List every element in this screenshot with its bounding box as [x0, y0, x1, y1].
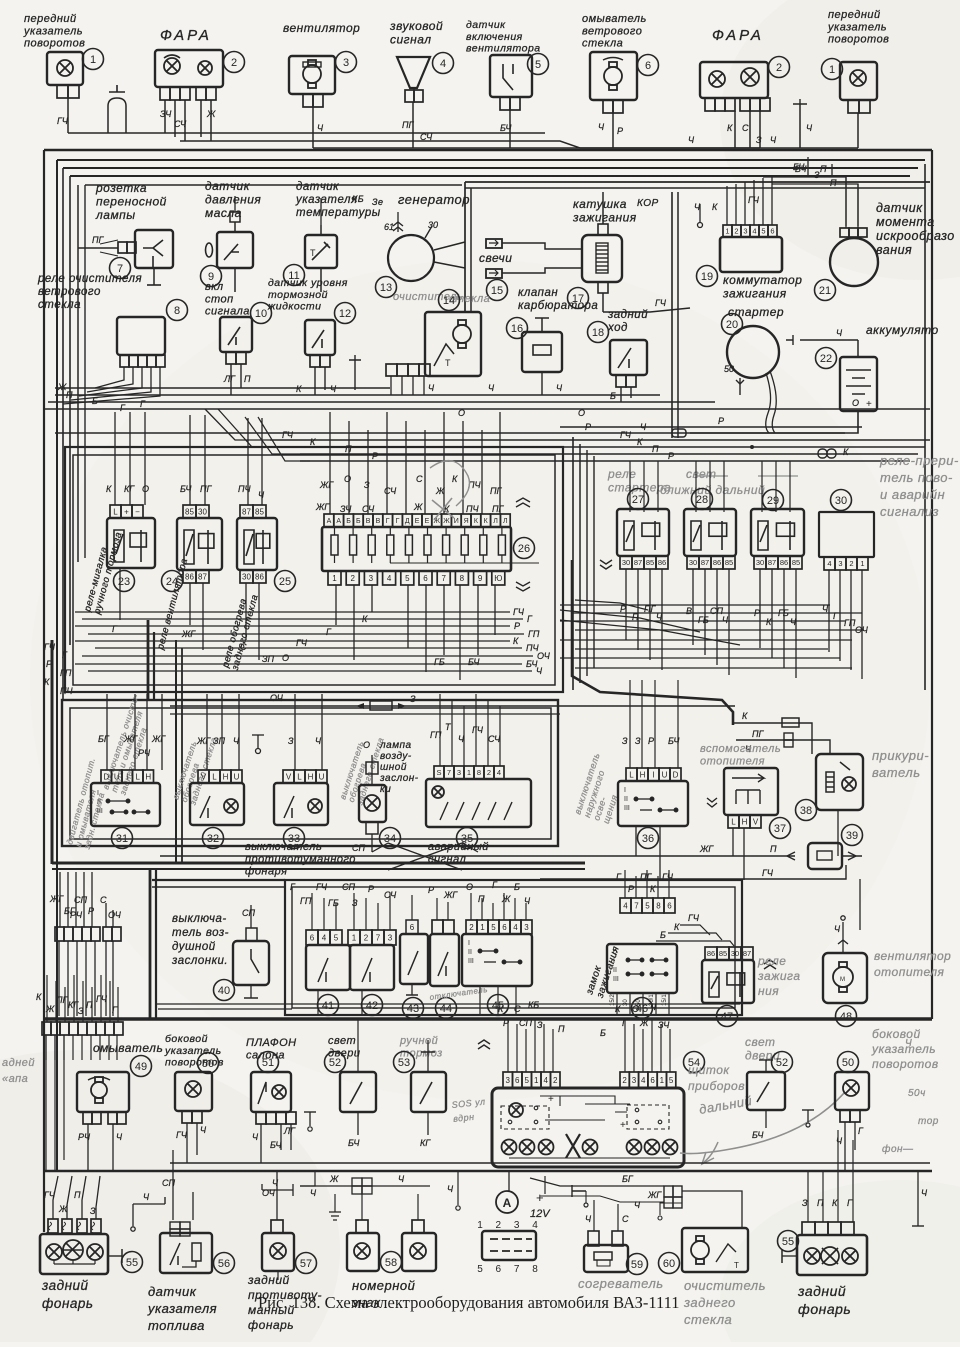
switch box 45 — [462, 934, 532, 986]
svg-text:Ч: Ч — [905, 1038, 912, 1049]
switch box 31 — [91, 783, 160, 826]
frame outer-left vertical — [43, 150, 45, 1232]
ignition lock wires up — [624, 870, 626, 898]
svg-text:КГ: КГ — [420, 1138, 431, 1148]
svg-text:86: 86 — [780, 558, 788, 567]
svg-text:30: 30 — [242, 572, 251, 581]
svg-text:22: 22 — [820, 353, 832, 365]
svg-text:ЖГ: ЖГ — [196, 736, 211, 746]
svg-text:З: З — [90, 1206, 96, 1216]
svg-text:ЖГ: ЖГ — [123, 734, 138, 744]
svg-text:Т: Т — [734, 1261, 739, 1270]
top bus wire 1 — [68, 132, 545, 134]
svg-text:40: 40 — [218, 985, 230, 997]
svg-text:согреватель: согреватель — [578, 1276, 664, 1291]
door switch box 52 right — [747, 1072, 785, 1110]
svg-text:В: В — [376, 518, 381, 525]
switch 43 pin — [406, 920, 418, 934]
svg-text:С: С — [416, 474, 423, 484]
svg-text:L: L — [212, 772, 217, 781]
bottom left connector row — [48, 1219, 58, 1233]
svg-text:14: 14 — [443, 295, 455, 307]
plug wires to coil — [502, 243, 582, 249]
svg-text:ПГ: ПГ — [640, 872, 653, 882]
number plate lamp pins — [356, 1220, 368, 1233]
svg-text:Ж: Ж — [435, 486, 445, 496]
feeder line P — [300, 453, 918, 455]
wires relay 24 down — [189, 583, 191, 625]
svg-text:Ч: Ч — [790, 617, 797, 627]
tail lamp box 55 left — [40, 1234, 108, 1274]
svg-text:56: 56 — [218, 1258, 230, 1270]
tap left of 50R — [807, 1110, 809, 1122]
svg-text:С: С — [514, 1004, 521, 1014]
svg-text:С: С — [622, 1214, 629, 1224]
svg-text:Б: Б — [600, 1028, 606, 1038]
thick line right descent — [572, 560, 733, 725]
svg-text:3: 3 — [343, 57, 349, 69]
switch 31 pins — [101, 770, 154, 783]
circled 5 — [528, 54, 549, 75]
wires into panel right header — [624, 1019, 626, 1072]
svg-text:1: 1 — [534, 1076, 539, 1085]
svg-text:ГЧ: ГЧ — [44, 642, 56, 652]
svg-text:20: 20 — [726, 319, 738, 331]
svg-text:Ч: Ч — [650, 1002, 657, 1012]
frame left vertical 1 — [56, 160, 58, 1170]
svg-text:ПЧ: ПЧ — [466, 504, 480, 514]
svg-text:57: 57 — [300, 1258, 312, 1270]
circled 28 — [692, 489, 713, 510]
bus bundle left y 612-671 — [75, 611, 510, 613]
svg-text:4: 4 — [322, 933, 327, 942]
section B frame outer — [62, 700, 558, 846]
circled 25 — [275, 571, 296, 592]
feeder line GCH — [270, 439, 930, 441]
svg-text:З: З — [802, 1198, 808, 1208]
wires into fuse block — [329, 412, 331, 514]
svg-text:Р: Р — [514, 621, 520, 631]
right section frame verticals — [572, 437, 574, 690]
svg-text:З: З — [288, 736, 294, 746]
inner frame line 5 left vertical — [84, 185, 86, 558]
svg-text:СП: СП — [519, 1018, 532, 1028]
inner frame around generator area — [465, 181, 930, 183]
chevron below 27 area — [600, 560, 612, 569]
svg-text:ЖГ: ЖГ — [699, 844, 714, 854]
svg-text:6: 6 — [645, 60, 651, 72]
svg-text:К: К — [36, 992, 42, 1002]
svg-text:БЧ: БЧ — [668, 736, 680, 746]
svg-text:4: 4 — [752, 227, 756, 236]
svg-text:85: 85 — [185, 507, 194, 516]
circled 4 — [433, 53, 454, 74]
svg-text:ГЧ: ГЧ — [655, 298, 667, 308]
inline connector on bus F — [672, 429, 686, 437]
side indicator wires down — [186, 1123, 188, 1163]
svg-text:свечи: свечи — [479, 251, 512, 265]
switch box 41 — [306, 945, 350, 990]
svg-text:Ч: Ч — [488, 383, 495, 393]
svg-text:СП: СП — [162, 1178, 175, 1188]
svg-text:ПГ: ПГ — [752, 729, 765, 739]
svg-text:4: 4 — [513, 923, 518, 932]
lower-left wires to bottom — [45, 1035, 47, 1060]
svg-text:8: 8 — [460, 574, 465, 583]
svg-text:О: О — [466, 882, 473, 892]
svg-text:5 6 7 8: 5 6 7 8 — [477, 1264, 543, 1275]
spark plug lower — [486, 269, 502, 278]
svg-text:3: 3 — [388, 933, 393, 942]
circled 57 — [296, 1253, 317, 1274]
svg-text:ПГ: ПГ — [492, 504, 505, 514]
bus line B — [55, 394, 660, 396]
svg-text:28: 28 — [696, 494, 708, 506]
svg-text:2: 2 — [350, 574, 355, 583]
svg-text:ЗЧ: ЗЧ — [160, 109, 172, 119]
svg-text:87: 87 — [701, 558, 709, 567]
relay box 24 — [177, 518, 222, 570]
svg-text:Р: Р — [88, 906, 94, 916]
svg-text:свет: свет — [686, 467, 717, 481]
svg-text:I: I — [126, 772, 128, 781]
svg-text:О: О — [852, 398, 859, 408]
svg-text:ОЧ: ОЧ — [270, 693, 284, 703]
svg-text:В: В — [686, 606, 692, 616]
svg-text:вентилятор: вентилятор — [283, 21, 360, 35]
svg-text:ЗЧ: ЗЧ — [340, 504, 352, 514]
svg-text:Ж: Ж — [501, 894, 511, 904]
dome light wires — [260, 1124, 262, 1163]
circled 51 — [258, 1052, 279, 1073]
switch box 43 — [400, 934, 428, 984]
commutator wire Z to sensor — [763, 177, 846, 226]
svg-text:Р: Р — [585, 422, 591, 432]
fuse block letter pins — [324, 514, 510, 527]
side indicator box 50 right — [835, 1072, 869, 1110]
heater fan box 48 — [823, 953, 867, 1003]
pencil swoosh on panel — [680, 1092, 845, 1154]
svg-text:Ч: Ч — [447, 1184, 454, 1194]
svg-text:8: 8 — [477, 768, 481, 777]
svg-text:Ч: Ч — [722, 615, 729, 625]
svg-text:6: 6 — [410, 923, 415, 932]
svg-text:II: II — [97, 799, 101, 806]
svg-text:7: 7 — [634, 901, 639, 910]
panel right header — [620, 1072, 676, 1088]
svg-text:49: 49 — [135, 1061, 147, 1073]
svg-text:Д: Д — [405, 518, 410, 525]
svg-text:К: К — [615, 1004, 621, 1014]
svg-text:1: 1 — [829, 64, 835, 76]
frame right vertical 2 — [924, 164, 926, 690]
svg-text:О: О — [458, 408, 465, 418]
svg-text:3: 3 — [743, 227, 747, 236]
washer wires down — [87, 1124, 89, 1171]
svg-text:5: 5 — [669, 1076, 674, 1085]
generator wires to frame — [434, 242, 465, 250]
svg-text:1: 1 — [480, 923, 485, 932]
switch 44 pins — [432, 920, 454, 934]
svg-text:Р: Р — [718, 416, 724, 426]
switch 41-42 pins — [306, 930, 342, 945]
circled 38 — [796, 800, 817, 821]
svg-text:60: 60 — [663, 1258, 675, 1270]
svg-text:Р: Р — [617, 126, 623, 136]
handbrake switch box 53 — [411, 1072, 446, 1112]
svg-text:Б: Б — [514, 882, 520, 892]
svg-text:2: 2 — [849, 559, 853, 568]
svg-text:U: U — [234, 772, 240, 781]
thick vertical pair mid-left lower — [149, 869, 152, 1019]
relay 29 wires down — [759, 569, 761, 648]
svg-text:50ч: 50ч — [908, 1088, 926, 1099]
long bus above bottom row — [170, 1162, 930, 1164]
svg-text:В: В — [366, 518, 371, 525]
tail lamp right pins — [802, 1222, 854, 1235]
svg-text:5: 5 — [761, 227, 765, 236]
fuse block number pins — [328, 571, 341, 585]
svg-text:2: 2 — [553, 1076, 558, 1085]
svg-text:2: 2 — [776, 62, 782, 74]
svg-text:ГП: ГП — [300, 896, 312, 906]
svg-text:СП: СП — [352, 843, 365, 853]
thick bottom bus — [43, 1017, 932, 1021]
svg-text:К: К — [106, 484, 112, 494]
svg-text:ОЧ: ОЧ — [537, 651, 551, 661]
wires into panel left header — [507, 1019, 509, 1072]
svg-text:Ю: Ю — [494, 574, 502, 583]
fuses inside block — [331, 535, 338, 555]
wires into relays 27-29 — [629, 461, 631, 512]
svg-text:Ч: Ч — [598, 122, 605, 132]
right edge wire — [917, 1171, 919, 1226]
connector symbol right feeder — [818, 449, 827, 458]
inline connector quad right — [664, 1186, 673, 1197]
svg-text:К: К — [843, 447, 849, 457]
circled 18 — [588, 322, 609, 343]
section C frame extension left — [152, 879, 285, 881]
switch box 44 — [430, 934, 459, 986]
svg-text:Б: Б — [356, 518, 361, 525]
switch 45 pins — [466, 920, 532, 934]
svg-text:ГЧ: ГЧ — [296, 638, 308, 648]
svg-text:30: 30 — [689, 558, 697, 567]
svg-text:7: 7 — [441, 574, 446, 583]
circled 10 — [251, 303, 272, 324]
wires relay 25 down — [245, 583, 247, 640]
svg-text:З: З — [78, 1006, 84, 1016]
svg-text:Р: Р — [368, 884, 374, 894]
svg-text:L: L — [731, 817, 736, 826]
commutator pins 1-6 — [723, 225, 777, 237]
svg-text:1: 1 — [725, 227, 729, 236]
svg-text:БЧ: БЧ — [270, 1140, 282, 1150]
svg-text:18: 18 — [592, 327, 604, 339]
crossing wires on ZhG line — [388, 843, 462, 870]
frame top line 3 — [63, 167, 918, 169]
svg-text:L: L — [297, 772, 302, 781]
svg-text:15: 15 — [491, 285, 503, 297]
relay 30 wires down — [828, 570, 830, 652]
svg-text:Е: Е — [415, 518, 420, 525]
svg-text:БЧ: БЧ — [348, 1138, 360, 1148]
svg-text:С: С — [742, 123, 749, 133]
svg-text:ЗП: ЗП — [213, 736, 226, 746]
circled 54 — [684, 1052, 705, 1073]
ignition lock wires down with tiny labels — [616, 993, 618, 1016]
svg-text:U: U — [114, 772, 120, 781]
svg-text:47: 47 — [721, 1011, 733, 1023]
svg-text:+: + — [620, 1120, 626, 1131]
svg-text:2: 2 — [622, 1076, 627, 1085]
svg-text:7: 7 — [447, 768, 451, 777]
svg-text:ПГ: ПГ — [402, 120, 415, 130]
svg-text:30: 30 — [835, 495, 847, 507]
svg-text:ГЧ: ГЧ — [96, 994, 108, 1004]
svg-text:43: 43 — [407, 1003, 419, 1015]
svg-text:генератор: генератор — [398, 192, 470, 207]
circled 27 — [628, 489, 649, 510]
frame left vertical 2 — [62, 168, 64, 700]
svg-text:РЧ: РЧ — [138, 748, 151, 758]
svg-text:светдвери: светдвери — [745, 1035, 780, 1062]
svg-text:ГЧ: ГЧ — [472, 725, 484, 735]
svg-text:СП: СП — [242, 908, 255, 918]
tap near right indicator — [799, 104, 801, 148]
svg-text:З: З — [756, 135, 762, 145]
fuel sensor box 56 — [160, 1233, 212, 1273]
z-line with inline fuse — [170, 705, 735, 707]
svg-text:С: С — [100, 895, 107, 905]
svg-text:38: 38 — [800, 805, 812, 817]
tail lamp left ground stub — [108, 1255, 122, 1257]
svg-text:Ж: Ж — [45, 1004, 55, 1014]
light switch 36 pins — [626, 768, 681, 781]
relay 30 pins bottom — [824, 557, 868, 570]
svg-text:85: 85 — [646, 558, 654, 567]
svg-text:50: 50 — [724, 364, 734, 374]
svg-text:РЧ: РЧ — [78, 1132, 91, 1142]
tail lamp right wires — [807, 1171, 809, 1222]
svg-text:ЗЧ: ЗЧ — [658, 1020, 670, 1030]
svg-text:К: К — [712, 202, 718, 212]
circled 19 — [697, 266, 718, 287]
left connector row 2 — [103, 927, 121, 941]
svg-text:ГП: ГП — [430, 730, 442, 740]
svg-text:Е: Е — [425, 518, 430, 525]
svg-text:Я: Я — [464, 518, 469, 525]
svg-text:стартер: стартер — [728, 305, 784, 319]
oil sensor box 9 — [217, 232, 253, 268]
svg-text:L: L — [136, 772, 141, 781]
svg-text:26: 26 — [518, 543, 530, 555]
svg-text:8: 8 — [174, 305, 180, 317]
svg-text:V: V — [286, 772, 292, 781]
fog lamp wire — [276, 1171, 278, 1220]
circled 1 right — [822, 59, 843, 80]
fuse block 26 body — [322, 527, 511, 571]
svg-text:ПГ: ПГ — [56, 995, 69, 1005]
circled 50 left — [198, 1053, 219, 1074]
svg-text:ПЧ: ПЧ — [238, 484, 252, 494]
heater resistor box 37 — [724, 768, 778, 815]
frame top line 1 — [44, 149, 932, 151]
svg-text:ФАРА: ФАРА — [160, 27, 212, 44]
svg-text:О: О — [578, 408, 585, 418]
far left wires continue down — [45, 1035, 47, 1171]
svg-text:ГБ: ГБ — [698, 615, 709, 625]
svg-text:ГЧ: ГЧ — [620, 430, 632, 440]
svg-text:4: 4 — [387, 574, 392, 583]
circled 52 right — [772, 1052, 793, 1073]
svg-text:К: К — [44, 677, 50, 687]
circled 52 left — [325, 1052, 346, 1073]
svg-text:4: 4 — [544, 1076, 549, 1085]
inline unit box 39 — [808, 843, 842, 869]
wire labels BG ZhG — [530, 1178, 664, 1186]
svg-text:Б: Б — [92, 396, 98, 406]
svg-text:87: 87 — [634, 558, 642, 567]
svg-text:3: 3 — [632, 1076, 637, 1085]
flasher relay box 30 — [819, 512, 874, 557]
svg-text:П: П — [244, 374, 251, 384]
svg-text:4: 4 — [497, 768, 501, 777]
svg-text:П: П — [817, 1198, 824, 1208]
svg-text:16: 16 — [511, 323, 523, 335]
svg-text:H: H — [308, 772, 314, 781]
wires into relay 25 — [247, 418, 249, 505]
svg-text:Л: Л — [493, 518, 498, 525]
relay 27 wires down — [625, 569, 627, 640]
svg-text:ЖГ: ЖГ — [49, 894, 64, 904]
svg-text:0: 0 — [613, 949, 617, 956]
connector A wire — [508, 1171, 510, 1191]
svg-text:ОЧ: ОЧ — [108, 910, 122, 920]
wires into box 33 — [294, 694, 296, 770]
slants from bus to feeders — [205, 409, 270, 440]
fan sensor box 5 — [490, 55, 532, 97]
circled 59 — [627, 1254, 648, 1275]
carb valve box 16 — [522, 332, 562, 372]
circled 48 — [836, 1006, 857, 1027]
lower-left connector row — [42, 1022, 123, 1035]
svg-text:Ч: Ч — [330, 384, 337, 394]
circled 2 right — [769, 57, 790, 78]
svg-text:Ч: Ч — [524, 896, 531, 906]
number plate wiring — [300, 1171, 315, 1186]
svg-text:30: 30 — [756, 558, 764, 567]
svg-text:6: 6 — [310, 933, 315, 942]
generator G circle 13 — [388, 235, 434, 281]
svg-text:СП: СП — [74, 895, 87, 905]
svg-text:II: II — [613, 967, 617, 974]
svg-text:Ч: Ч — [556, 383, 563, 393]
svg-text:О: О — [344, 474, 351, 484]
wire loop around box 60 — [682, 1191, 742, 1228]
wiper relay wires down — [95, 367, 124, 388]
svg-text:51: 51 — [262, 1057, 274, 1069]
svg-text:85: 85 — [725, 558, 733, 567]
svg-text:55: 55 — [126, 1257, 138, 1269]
battery bottom wire to bus — [690, 411, 858, 433]
circled 1 left — [83, 49, 104, 70]
circled 47 — [717, 1006, 738, 1027]
svg-text:А: А — [336, 518, 341, 525]
circled 22 — [816, 348, 837, 369]
panel bottom lamps — [502, 1140, 517, 1155]
svg-text:ПЧ: ПЧ — [60, 686, 74, 696]
